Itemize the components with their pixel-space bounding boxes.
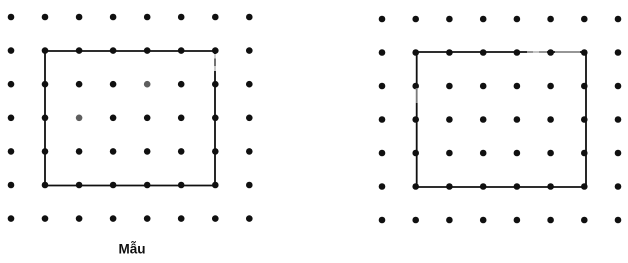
right dot grid (8 x 7 pegboard)	[379, 16, 622, 224]
scan fade on right edge of sample rectangle	[214, 54, 217, 71]
svg-text:Mẫu: Mẫu	[119, 242, 146, 257]
scan fade on top edge of copied rectangle	[527, 51, 580, 54]
scan fade on left edge of copied rectangle	[416, 88, 418, 103]
sample rectangle on left grid	[45, 51, 215, 186]
left dot grid (8 x 7 pegboard)	[8, 14, 253, 222]
copied rectangle on right grid	[417, 52, 586, 187]
